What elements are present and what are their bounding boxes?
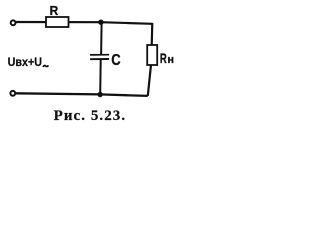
svg-text:Рис. 5.23.: Рис. 5.23. [54, 108, 126, 124]
label input voltage AC tilde subscript [43, 65, 49, 67]
terminal input bottom-left [10, 91, 15, 96]
wire right vertical upper [151, 23, 154, 46]
terminal input top-left [11, 20, 16, 25]
svg-text:н: н [167, 54, 174, 66]
svg-text:R: R [50, 3, 59, 18]
capacitor C top plate [90, 54, 109, 56]
resistor R [46, 17, 69, 27]
node junction top [98, 20, 103, 25]
node junction bottom [97, 92, 102, 97]
svg-text:Uвх+U: Uвх+U [8, 56, 42, 69]
resistor RH (load) [147, 45, 157, 65]
wire bottom horizontal [16, 93, 148, 96]
capacitor C bottom plate [90, 58, 109, 60]
wire right vertical lower [148, 65, 151, 96]
wire capacitor bottom lead [99, 59, 102, 94]
wire capacitor top lead [100, 22, 103, 55]
svg-text:C: C [111, 52, 120, 69]
svg-text:R: R [160, 51, 167, 66]
wire top horizontal [16, 22, 153, 24]
